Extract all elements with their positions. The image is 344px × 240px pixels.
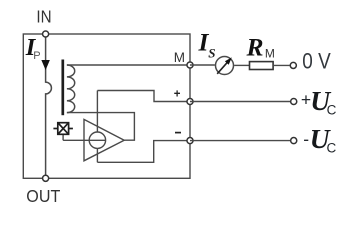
wire: - node to -Uc terminal: [190, 140, 290, 142]
output stage circle inside amplifier: [89, 132, 105, 148]
wire: winding top to node M: [67, 64, 190, 66]
resistor RM: [250, 62, 274, 70]
wire: positive supply from amplifier to + node: [97, 91, 190, 102]
node -: [187, 138, 193, 144]
svg-text:OUT: OUT: [26, 186, 60, 206]
svg-text:C: C: [327, 141, 337, 156]
arrow: primary current direction Ip: [42, 60, 50, 69]
svg-text:P: P: [33, 50, 40, 62]
node IN: [43, 31, 49, 37]
svg-text:M: M: [265, 46, 275, 60]
wire: supply rail through output stage: [96, 91, 98, 163]
svg-text:+: +: [174, 89, 181, 101]
wire: resistor to 0V terminal: [273, 64, 290, 66]
svg-text:IN: IN: [36, 6, 51, 26]
svg-text:C: C: [327, 103, 337, 118]
node M: [187, 62, 193, 68]
hall element (crossed square): [53, 123, 73, 135]
node OUT: [43, 175, 49, 181]
node +: [187, 98, 193, 104]
svg-text:M: M: [174, 50, 185, 65]
secondary winding Ls (4 turns): [67, 65, 75, 113]
op-amp U1 (amplifier triangle): [84, 119, 124, 160]
svg-text:R: R: [246, 33, 264, 62]
terminal +Uc: [291, 98, 297, 104]
wire: node M to ammeter: [190, 64, 215, 66]
svg-text:-: -: [303, 129, 309, 149]
wire: + node to +Uc terminal: [190, 101, 290, 103]
svg-text:S: S: [208, 45, 215, 60]
wire: negative supply from amplifier to - node: [97, 141, 190, 163]
terminal 0V: [290, 62, 296, 68]
wire: amplifier output to winding bottom: [67, 113, 134, 141]
svg-text:0 V: 0 V: [302, 49, 331, 74]
ammeter IS (current source circle with arrow): [216, 57, 234, 75]
core (magnetic circuit): [61, 60, 64, 116]
wire: ammeter to resistor: [234, 64, 249, 66]
wire: hall element to amplifier input (through circle): [63, 139, 106, 141]
label -: [175, 132, 181, 134]
terminal -Uc: [291, 138, 297, 144]
transducer body outline: [23, 34, 190, 178]
wire: primary conductor IN to OUT with single-turn bump: [46, 34, 52, 178]
